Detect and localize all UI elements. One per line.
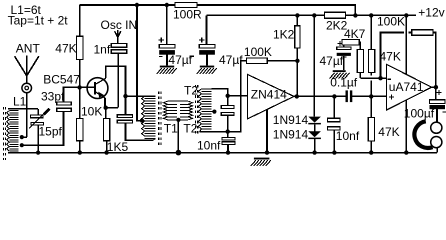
wire 33pf to base [64, 87, 95, 102]
capacitor C 1nf plate2 [111, 50, 127, 54]
capacitor C input plate1 [221, 106, 234, 109]
capacitor C 10nf-A plate2 [222, 142, 235, 145]
wire 10K to rail0 [79, 141, 81, 153]
uA741 minus mark [388, 78, 392, 80]
arrow trimmer [29, 112, 45, 128]
ground 47uF-2 [200, 66, 214, 68]
node 15pf rail [36, 151, 40, 155]
svg-text:10nf: 10nf [197, 139, 221, 153]
node V- rail [404, 150, 408, 154]
svg-text:T2: T2 [184, 84, 198, 98]
svg-text:L1: L1 [13, 95, 27, 109]
wire 10nfB down [333, 96, 335, 118]
uA741 plus mark [389, 95, 394, 100]
resistor R 47K fb [412, 30, 433, 36]
wire 1nf to emitter jog [117, 53, 119, 107]
plus 47uF-1 [159, 37, 164, 42]
wire 1K2 to node [296, 48, 298, 96]
wire 10nf to rail0 [227, 144, 229, 152]
capacitor C 33pf plate1 [57, 102, 71, 105]
node ZN414 gnd rail [265, 150, 269, 154]
svg-text:100µf: 100µf [404, 107, 435, 121]
wire cap to node2 [227, 115, 229, 131]
svg-text:1K2: 1K2 [273, 27, 295, 41]
wire uA741 out [432, 86, 436, 88]
node rail1-T1tap junction [135, 3, 139, 7]
capacitor C 10nf-A plate1 [222, 137, 235, 140]
node tap B [20, 143, 24, 147]
svg-text:10K: 10K [81, 104, 102, 118]
transistor emitter stroke [95, 92, 105, 98]
node output [434, 85, 438, 89]
wire diode1-2 [314, 124, 316, 131]
node T2 tap [211, 111, 214, 113]
wire 1K5 to rail0 [106, 141, 108, 153]
wire phones to rail0 [436, 148, 438, 153]
arrow Osc IN input [115, 30, 121, 37]
svg-text:1N914: 1N914 [273, 113, 309, 127]
ground 47uF-3 [333, 70, 346, 72]
capacitor C 10nf-B plate2 [328, 127, 341, 130]
svg-text:BC547: BC547 [43, 73, 80, 87]
transistor emitter arrow [98, 92, 104, 98]
node rail2-100K [369, 13, 373, 17]
svg-text:100K: 100K [377, 15, 405, 29]
svg-text:15pf: 15pf [39, 125, 63, 139]
node coupling gnd rail [176, 150, 182, 156]
wire T2 bottom [200, 131, 228, 133]
wire input to cap [227, 96, 229, 106]
wire diode2 to rail0 [314, 139, 316, 153]
resistor R 4K7 [342, 39, 359, 45]
wire 4K7 right down [359, 42, 360, 49]
capacitor C 47uF-2 plate2 [199, 50, 215, 55]
minus 100uF [443, 111, 446, 113]
node base [77, 85, 81, 89]
node tap A [20, 135, 24, 139]
wire collector to T1 top [126, 95, 156, 97]
resistor R 100K feedback [246, 58, 267, 63]
plus 100uF [437, 90, 442, 95]
transistor Q BC547 circle [87, 78, 108, 99]
wire inv up bracket [381, 33, 405, 79]
coupling winding right tips [188, 101, 192, 120]
svg-text:10nf: 10nf [336, 129, 360, 143]
svg-text:33pf: 33pf [41, 90, 65, 104]
wire T2 top to input [211, 89, 227, 96]
wire 100K2 to noninv [370, 73, 372, 97]
capacitor C trimmer 15pf plate1 [31, 115, 44, 118]
svg-text:uA741: uA741 [389, 80, 424, 94]
minus 47uF-3 [341, 56, 347, 58]
transistor base bar [94, 82, 96, 94]
node 1K2-100K [295, 59, 299, 63]
capacitor C 47uF-2 plate1 [199, 45, 215, 49]
svg-text:Tap=1t + 2t: Tap=1t + 2t [8, 13, 69, 27]
wire tap B to 33pf [22, 111, 64, 145]
wire cap to T1 bottom [126, 123, 154, 140]
wire collector to cap [125, 96, 127, 115]
capacitor C 33pf plate2 [57, 108, 71, 111]
wire out to 0.1uF [297, 95, 387, 97]
wire 47uF-1 to gnd [166, 55, 168, 66]
diode D 1N914-2 [308, 131, 321, 137]
capacitor C 47uF-3 plate2 [337, 53, 351, 56]
svg-text:47K: 47K [378, 125, 399, 139]
wire 100K left lead [228, 61, 247, 132]
wire rail1 to 47uF-1 [166, 5, 168, 45]
resistor R 100R [175, 3, 197, 8]
capacitor C collector plate1 [117, 115, 132, 118]
resistor R 2K2 [325, 12, 346, 18]
minus 47uF-2 [189, 55, 193, 57]
node 10K rail [78, 150, 82, 154]
capacitor C input plate2 [221, 113, 234, 116]
node inv [378, 76, 382, 80]
transistor collector stroke [95, 78, 106, 84]
node 1K5 rail [104, 150, 108, 154]
svg-text:100K: 100K [244, 45, 272, 59]
capacitor C 47uF-3 plate1 [337, 47, 351, 50]
capacitor C 10nf-B plate1 [328, 118, 341, 121]
wire 100K right lead [267, 60, 297, 62]
wire rail1 to T1 tap [137, 5, 142, 121]
svg-text:1N914: 1N914 [273, 128, 309, 142]
transformer T1 primary [142, 96, 156, 139]
node rail2-merge [353, 13, 357, 17]
node rail2-1K2 [295, 13, 299, 17]
wire ground rail [8, 152, 437, 154]
wire inv input line [360, 77, 386, 79]
wire divleft to inv [359, 73, 361, 79]
wire emitter jog [106, 107, 119, 109]
node ZN414 input [226, 94, 230, 98]
wire 47K-3 to rail0 [370, 141, 372, 153]
inductor L1 winding [7, 111, 19, 152]
node noninv [369, 94, 373, 98]
svg-text:+12v: +12v [418, 6, 444, 20]
node coupling gnd top [176, 118, 180, 122]
wire emitter down [104, 98, 106, 108]
antenna terminal outer [22, 83, 32, 93]
wire uA741 V- [405, 100, 407, 153]
resistor R 1K5 [103, 118, 109, 140]
wire coupling bottom to gnd [177, 120, 179, 153]
capacitor C 100uF plate2 [430, 105, 446, 109]
svg-text:ANT: ANT [16, 42, 41, 56]
capacitor C 0.1uF [346, 90, 348, 102]
phones earpiece1 [431, 122, 442, 133]
node 10nfB rail [332, 150, 336, 154]
wire L1 top [8, 108, 38, 110]
wire antenna to tap A [26, 93, 28, 137]
wire V+ rail upper-left segment [80, 4, 175, 6]
node emitter [104, 106, 108, 110]
capacitor C 100uF plate1 [430, 100, 446, 104]
wire 15pf to rail0 [37, 125, 39, 153]
plus 47uF-2 [199, 37, 204, 42]
node ZN414 output [295, 94, 299, 98]
wire rail1 right segment [197, 5, 356, 15]
wire 47uF-3 to gnd [343, 56, 345, 70]
transformer coupling winding lines [168, 101, 189, 120]
phones band arc [414, 121, 432, 148]
wire OscIN arrow to 1nf [117, 37, 119, 44]
capacitor C 47uF-1 plate2 [159, 50, 175, 55]
transformer T2 secondary [198, 89, 211, 129]
resistor R divider-left [357, 49, 363, 72]
core L1 dashed [4, 107, 6, 160]
svg-text:47µf: 47µf [320, 54, 344, 68]
capacitor C collector plate2 [117, 120, 132, 123]
resistor R 100K-2 [368, 49, 374, 72]
resistor R 10K [77, 118, 83, 140]
node 47K-3 rail [369, 150, 373, 154]
node 10nfB top [332, 94, 336, 98]
svg-text:1nf: 1nf [94, 43, 111, 57]
wire rail2 to 100K-2 [370, 15, 372, 49]
svg-text:4K7: 4K7 [344, 27, 366, 41]
core T2 dashed [195, 85, 197, 134]
wire rail1 to 47K [79, 5, 81, 36]
capacitor C trimmer 15pf plate2 [31, 122, 44, 125]
wire 47uF-2 to gnd [206, 55, 208, 66]
node T1 tap [140, 119, 144, 123]
antenna terminal inner [25, 86, 29, 90]
diode D 1N914-1 [308, 117, 321, 123]
wire node2 to 10nf [227, 132, 229, 138]
resistor R 1K2 [295, 26, 300, 48]
wire base to 10K [79, 87, 81, 118]
wire uA741 V+ [405, 15, 407, 74]
node rail2-diodes [312, 13, 316, 17]
op-amp U uA741 triangle [386, 64, 431, 110]
svg-text:100R: 100R [173, 7, 202, 21]
capacitor C 47uF-1 plate1 [159, 45, 175, 49]
resistor R 47K base-bias [77, 36, 83, 59]
wire top to 15pf [37, 109, 39, 115]
node rail2-uA741 [404, 13, 408, 17]
wire tap A [22, 136, 27, 138]
wire ZN414 out [294, 95, 297, 97]
node2 T2-bottom [226, 129, 230, 133]
svg-text:Osc IN: Osc IN [101, 18, 138, 32]
wire emitter to 1K5 [105, 108, 107, 119]
wire rail2 to 1K2 [296, 15, 298, 25]
wire rail2 to 47uF-2 [206, 15, 208, 44]
capacitor C 1nf plate1 [111, 44, 127, 48]
ground 47uF-1 [160, 66, 174, 68]
wire +12v rail [207, 14, 417, 16]
wire 47Kfb leads [409, 33, 436, 88]
svg-text:1K5: 1K5 [107, 140, 129, 154]
wire input node to ZN414 [228, 95, 248, 97]
wire 47K to base node [79, 60, 81, 88]
svg-text:47µf: 47µf [168, 53, 192, 67]
plus 47uF-3 [338, 41, 343, 46]
wire 100uF to phones [436, 109, 438, 122]
svg-text:T1: T1 [164, 122, 178, 136]
resistor R 47K-3 [368, 118, 374, 142]
phones earpiece2 [431, 137, 442, 148]
ground main [254, 158, 270, 160]
coupling winding left tips [163, 101, 167, 120]
node collector [123, 94, 127, 98]
antenna symbol [15, 56, 39, 84]
wire 4K7 left to cap [343, 45, 345, 47]
svg-text:47µf: 47µf [219, 53, 243, 67]
node diodes rail [312, 150, 316, 154]
svg-text:47K: 47K [380, 50, 401, 64]
node rail1-47uF junction [165, 3, 169, 7]
wire 47K-3 top [370, 96, 372, 117]
node 10nf rail [226, 150, 230, 154]
svg-text:ZN414: ZN414 [251, 88, 287, 102]
wire collector loop [106, 66, 126, 96]
amplifier U ZN414 triangle [247, 74, 294, 119]
wire out to 100uF [435, 87, 437, 100]
wire rail2 to diodes [313, 15, 315, 116]
minus 47uF-1 [159, 55, 162, 57]
svg-text:0.1µf: 0.1µf [330, 75, 358, 89]
wire ZN414 gnd [266, 109, 268, 152]
wire 10nfB to rail0 [333, 130, 335, 153]
core T1 dashed [159, 92, 161, 146]
svg-text:47K: 47K [55, 42, 76, 56]
